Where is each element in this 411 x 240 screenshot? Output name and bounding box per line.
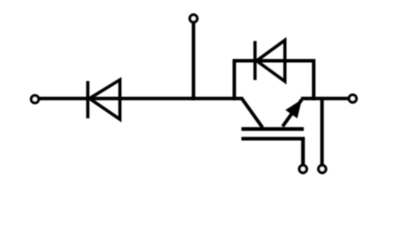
- terminal 1 (left, anode): [31, 96, 38, 103]
- terminal 3 (right, emitter): [349, 95, 356, 102]
- IGBT Q1 body bar: [241, 127, 303, 131]
- wire: emitter to right terminal: [301, 97, 348, 101]
- terminal 5 (auxiliary emitter, bottom right): [319, 165, 326, 172]
- terminal 4 (gate, bottom left): [299, 165, 306, 172]
- IGBT Q1 emitter arrowhead: [285, 100, 301, 119]
- diode D2 cathode bar: [253, 41, 256, 80]
- diode D1 cathode bar: [86, 81, 89, 118]
- wire: freewheel diode loop (collector up, across, down to emitter): [234, 61, 313, 100]
- diode D2 triangle (freewheel, pointing left): [257, 40, 285, 81]
- terminal 2 (top): [190, 15, 197, 22]
- wire: auxiliary emitter drop: [320, 99, 324, 165]
- IGBT Q1 emitter lead (slant with arrow toward emitter): [283, 100, 302, 127]
- wire: left terminal to collector node: [40, 97, 244, 101]
- IGBT Q1 collector lead (slant from node wire to body bar): [242, 99, 263, 128]
- wire: node A up to top terminal: [192, 23, 196, 100]
- diode D1 triangle (anode right, pointing left): [89, 80, 120, 120]
- IGBT Q1 gate bar and gate lead down to gate terminal: [241, 139, 303, 165]
